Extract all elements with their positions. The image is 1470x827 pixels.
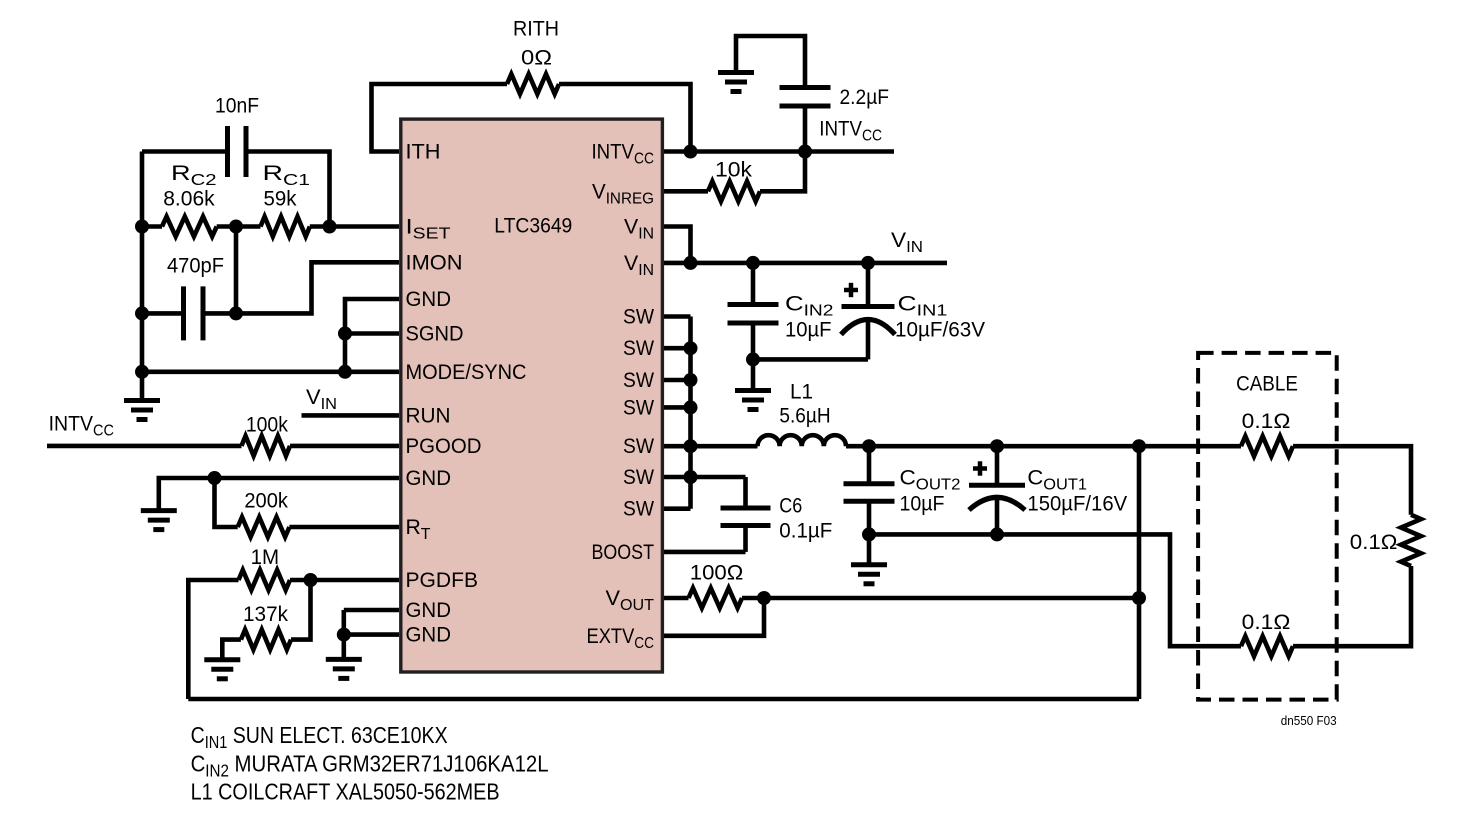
svg-text:59k: 59k bbox=[264, 187, 297, 211]
svg-text:R: R bbox=[263, 161, 284, 185]
svg-text:C: C bbox=[900, 466, 916, 490]
svg-text:IN1: IN1 bbox=[205, 732, 228, 752]
svg-text:IN: IN bbox=[906, 239, 923, 256]
svg-text:SGND: SGND bbox=[406, 322, 464, 346]
svg-text:SET: SET bbox=[413, 226, 451, 243]
svg-text:CC: CC bbox=[862, 128, 882, 145]
svg-text:V: V bbox=[624, 215, 639, 239]
svg-text:0.1Ω: 0.1Ω bbox=[1242, 610, 1291, 634]
svg-text:10nF: 10nF bbox=[215, 94, 259, 118]
svg-text:V: V bbox=[891, 228, 907, 252]
svg-text:INTV: INTV bbox=[819, 117, 862, 141]
svg-text:C: C bbox=[1027, 466, 1043, 490]
svg-text:SW: SW bbox=[623, 305, 655, 329]
svg-text:SW: SW bbox=[623, 395, 655, 419]
svg-text:PGDFB: PGDFB bbox=[406, 568, 479, 592]
svg-text:2.2µF: 2.2µF bbox=[840, 85, 890, 109]
svg-text:137k: 137k bbox=[243, 602, 288, 626]
svg-text:10µF: 10µF bbox=[900, 492, 945, 516]
svg-text:C: C bbox=[785, 292, 804, 316]
svg-text:IN: IN bbox=[321, 396, 337, 413]
svg-text:V: V bbox=[306, 385, 321, 409]
svg-text:EXTV: EXTV bbox=[587, 624, 635, 648]
svg-text:GND: GND bbox=[406, 623, 452, 647]
svg-text:100Ω: 100Ω bbox=[690, 561, 744, 585]
svg-text:V: V bbox=[592, 179, 606, 203]
svg-text:10k: 10k bbox=[715, 158, 752, 182]
svg-text:100k: 100k bbox=[246, 413, 288, 437]
svg-text:SW: SW bbox=[623, 465, 655, 489]
svg-text:MURATA GRM32ER71J106KA12L: MURATA GRM32ER71J106KA12L bbox=[229, 751, 549, 777]
svg-text:GND: GND bbox=[406, 598, 452, 622]
svg-text:GND: GND bbox=[406, 466, 452, 490]
svg-text:dn550 F03: dn550 F03 bbox=[1281, 713, 1337, 728]
svg-text:0.1µF: 0.1µF bbox=[779, 519, 832, 543]
svg-text:INTV: INTV bbox=[49, 412, 94, 436]
svg-text:IN: IN bbox=[638, 226, 654, 243]
svg-text:0.1Ω: 0.1Ω bbox=[1350, 530, 1398, 554]
svg-text:10µF: 10µF bbox=[785, 318, 832, 342]
svg-text:PGOOD: PGOOD bbox=[406, 434, 482, 458]
svg-text:V: V bbox=[606, 586, 621, 610]
svg-text:BOOST: BOOST bbox=[592, 540, 655, 564]
svg-text:150µF/16V: 150µF/16V bbox=[1027, 492, 1127, 516]
svg-text:L1: L1 bbox=[790, 380, 813, 404]
svg-text:IMON: IMON bbox=[406, 250, 463, 274]
svg-text:ITH: ITH bbox=[406, 140, 441, 164]
svg-text:200k: 200k bbox=[244, 489, 288, 513]
svg-text:C6: C6 bbox=[779, 494, 802, 518]
svg-text:R: R bbox=[406, 515, 421, 539]
svg-text:MODE/SYNC: MODE/SYNC bbox=[406, 360, 527, 384]
svg-text:RITH: RITH bbox=[513, 17, 559, 41]
svg-text:L1 COILCRAFT XAL5050-562MEB: L1 COILCRAFT XAL5050-562MEB bbox=[191, 779, 500, 805]
svg-text:0.1Ω: 0.1Ω bbox=[1242, 409, 1291, 433]
svg-text:5.6µH: 5.6µH bbox=[779, 404, 830, 428]
svg-text:OUT: OUT bbox=[620, 597, 654, 614]
svg-text:CC: CC bbox=[93, 423, 114, 440]
svg-text:C: C bbox=[898, 292, 917, 316]
svg-text:INREG: INREG bbox=[606, 190, 654, 207]
svg-text:V: V bbox=[624, 251, 639, 275]
svg-text:SW: SW bbox=[623, 336, 655, 360]
svg-text:0Ω: 0Ω bbox=[521, 46, 552, 70]
svg-text:CABLE: CABLE bbox=[1236, 372, 1298, 396]
svg-text:CC: CC bbox=[634, 635, 654, 652]
svg-text:10µF/63V: 10µF/63V bbox=[895, 318, 986, 342]
svg-text:GND: GND bbox=[406, 287, 452, 311]
svg-text:8.06k: 8.06k bbox=[163, 187, 215, 211]
svg-text:SW: SW bbox=[623, 434, 655, 458]
svg-text:IN2: IN2 bbox=[205, 761, 229, 781]
svg-text:SW: SW bbox=[623, 368, 655, 392]
svg-text:SUN ELECT. 63CE10KX: SUN ELECT. 63CE10KX bbox=[227, 722, 447, 748]
svg-text:T: T bbox=[421, 526, 431, 543]
svg-text:LTC3649: LTC3649 bbox=[494, 214, 572, 238]
svg-text:R: R bbox=[171, 161, 191, 185]
svg-text:470pF: 470pF bbox=[167, 253, 224, 277]
svg-text:INTV: INTV bbox=[592, 140, 635, 164]
svg-text:IN: IN bbox=[638, 262, 654, 279]
svg-text:CC: CC bbox=[634, 151, 654, 168]
svg-text:I: I bbox=[406, 215, 413, 239]
svg-text:RUN: RUN bbox=[406, 403, 451, 427]
svg-text:C: C bbox=[191, 722, 205, 748]
svg-text:1M: 1M bbox=[251, 545, 280, 569]
svg-text:C: C bbox=[191, 751, 206, 777]
svg-text:SW: SW bbox=[623, 497, 655, 521]
